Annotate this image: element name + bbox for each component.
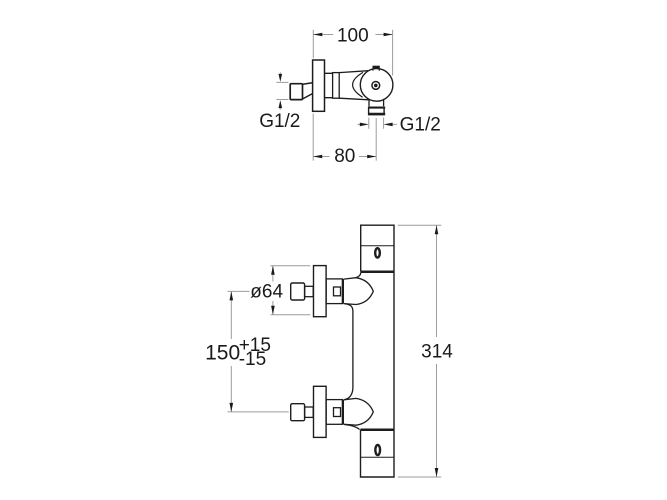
wall plate (top view) xyxy=(313,60,325,111)
column body outline xyxy=(361,225,395,477)
svg-text:314: 314 xyxy=(421,341,453,362)
top valve body xyxy=(326,279,342,304)
dimension o64 line xyxy=(272,266,274,315)
cone base ellipse arc xyxy=(353,72,363,97)
dimension 314 extension lines xyxy=(398,225,442,477)
svg-text:100: 100 xyxy=(337,26,369,47)
valve body circle xyxy=(360,69,393,102)
svg-text:-15: -15 xyxy=(239,349,266,370)
top valve stem xyxy=(305,286,314,296)
dimension o64 top arrow xyxy=(271,266,275,275)
right G1/2 extension lines xyxy=(369,118,384,129)
svg-text:ø64: ø64 xyxy=(250,281,283,302)
right G1/2 right arrow xyxy=(384,123,393,127)
top valve cone xyxy=(344,278,374,305)
dimension 314 bottom arrow xyxy=(435,468,439,477)
middle column left edge xyxy=(345,304,353,400)
svg-text:80: 80 xyxy=(334,146,355,167)
left G1/2 extension ticks xyxy=(276,82,288,99)
bottom valve knob xyxy=(291,404,305,421)
handle knob (top view) xyxy=(290,84,302,100)
dimension o64 bottom arrow xyxy=(271,306,275,315)
top tab cap xyxy=(373,66,380,69)
bottom valve base thick line xyxy=(342,400,344,425)
top cap thick line xyxy=(361,270,394,273)
left G1/2 top arrow xyxy=(279,74,283,82)
dimension 100 right arrow xyxy=(384,33,393,37)
top valve to cap fillet xyxy=(356,272,361,278)
dimension 80 right arrow xyxy=(367,155,376,159)
bottom cap divider xyxy=(361,456,395,458)
dimension 100 left arrow xyxy=(313,33,322,37)
top valve knob xyxy=(291,283,305,300)
top cap divider xyxy=(361,245,394,247)
dimension 100 extension lines xyxy=(313,30,392,76)
bottom valve plate xyxy=(314,386,327,437)
svg-text:150: 150 xyxy=(205,342,240,365)
right G1/2 dim stems xyxy=(358,123,397,125)
top valve base thick line xyxy=(342,279,344,304)
svg-text:G1/2: G1/2 xyxy=(400,115,441,136)
bottom valve stem xyxy=(305,407,314,417)
neck stub behind plate xyxy=(325,73,333,97)
bottom valve to cap fillet xyxy=(345,425,360,430)
bottom valve inner square xyxy=(334,408,341,417)
right G1/2 left arrow xyxy=(360,123,369,127)
top port 0 xyxy=(375,248,380,257)
left G1/2 bottom arrow xyxy=(279,100,283,108)
svg-text:G1/2: G1/2 xyxy=(259,111,300,132)
left G1/2 arrow stems xyxy=(279,72,281,109)
top valve plate xyxy=(314,266,327,317)
top tab sides xyxy=(373,68,379,70)
bottom cap thick line xyxy=(361,429,395,432)
collar xyxy=(333,73,340,99)
dimension o64 extension lines xyxy=(271,266,311,315)
dimension 80 line xyxy=(313,156,376,158)
spout neck (top view) xyxy=(369,99,384,106)
dimension 80 left arrow xyxy=(313,155,322,159)
dimension 150 bottom arrow xyxy=(230,403,234,412)
dimension 150 extension lines xyxy=(228,291,289,412)
top valve inner square xyxy=(334,287,341,296)
bottom valve cone xyxy=(344,398,374,425)
dimension 100 line xyxy=(313,34,392,36)
tapered body cone xyxy=(339,71,369,100)
bottom port 0 xyxy=(375,445,380,455)
spout flange (top view) xyxy=(368,107,385,114)
dimension 150 top arrow xyxy=(230,291,234,300)
handle shaft wedge xyxy=(303,83,313,99)
dimension 314 line xyxy=(436,225,438,477)
bottom valve body xyxy=(326,400,342,425)
temperature ring xyxy=(372,82,380,90)
center dot xyxy=(374,84,378,88)
dimension 150 line xyxy=(230,291,232,412)
dimension 80 extension lines xyxy=(313,114,376,161)
dimension 314 top arrow xyxy=(435,225,439,234)
